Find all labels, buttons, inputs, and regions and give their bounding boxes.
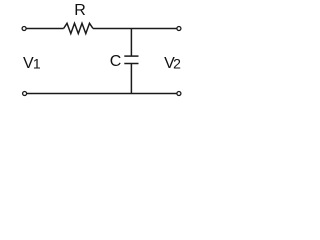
svg-text:V1: V1 (23, 55, 41, 72)
wire capacitor lower stub (130, 64, 132, 94)
wire top-left (26, 28, 63, 30)
terminal bottom-right (177, 92, 181, 96)
terminal bottom-left (23, 92, 27, 96)
resistor R (64, 23, 93, 33)
terminal top-right (177, 27, 181, 31)
wire bottom (27, 93, 177, 95)
capacitor C bottom plate (124, 63, 138, 65)
wire capacitor upper stub (130, 29, 132, 57)
capacitor C top plate (124, 55, 138, 57)
svg-text:C: C (110, 53, 122, 70)
terminal top-left (22, 27, 26, 31)
svg-text:R: R (74, 2, 86, 19)
svg-text:V2: V2 (164, 55, 181, 72)
wire top-right (93, 28, 177, 30)
